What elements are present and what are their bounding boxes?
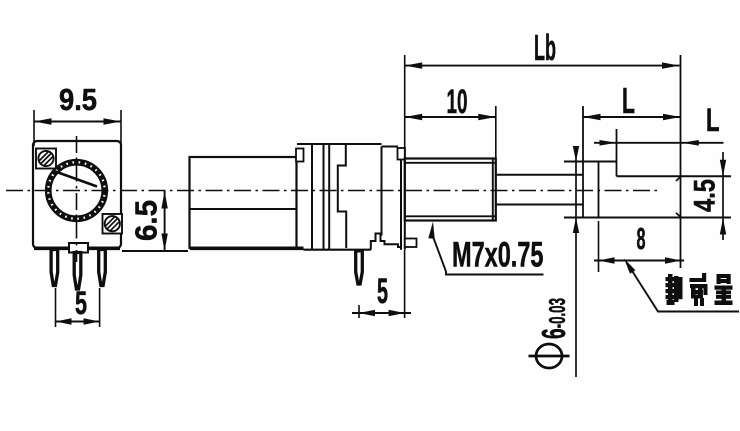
knurl note char 2 — [690, 273, 708, 306]
dim 5 extension right — [99, 288, 101, 327]
screw BR circle — [105, 216, 120, 231]
dim 9.5 extension right — [120, 110, 122, 146]
dim 6.5 bottom extension — [122, 250, 188, 252]
bottom tab — [69, 243, 88, 253]
dim 8 line — [594, 260, 684, 262]
svg-text:5: 5 — [75, 285, 87, 321]
side body seam line — [190, 208, 297, 210]
dim 5 arrow right — [84, 318, 100, 324]
dim 6.5 arrow bottom — [161, 234, 167, 252]
svg-text:6-0.03: 6-0.03 — [535, 298, 572, 339]
dim L2 arrow left — [600, 140, 617, 146]
dim phi6 arrow bottom — [573, 218, 579, 234]
bracket top edge right step — [382, 146, 399, 148]
svg-text:L: L — [622, 80, 635, 121]
side body outline — [190, 157, 297, 248]
svg-text:Lb: Lb — [534, 27, 556, 68]
screw TL hatch — [41, 154, 51, 164]
knurl note char 3 — [715, 274, 733, 305]
dim 10 extension right — [495, 106, 497, 158]
side body bottom edge (thick) — [190, 247, 304, 251]
mount plate top tab — [398, 148, 405, 160]
screw TL circle — [38, 151, 53, 166]
dim Lb arrow right — [662, 62, 680, 68]
dim 10 arrow right — [478, 114, 496, 120]
svg-text:6.5: 6.5 — [129, 200, 164, 241]
knurl note leader line — [628, 265, 739, 312]
dim L1 arrow left — [583, 114, 601, 120]
pin 1 (front view) — [51, 250, 58, 286]
pin 2 (front view) — [74, 253, 81, 290]
dim 10 line — [405, 116, 496, 118]
bracket front plate edge — [381, 147, 383, 236]
knurl boundary line — [598, 162, 600, 218]
dim 5s extension left — [358, 305, 360, 318]
shaft neck top — [496, 174, 583, 176]
dim Lb extension left — [404, 55, 406, 148]
bracket plate 2 — [323, 144, 325, 249]
bushing outline — [405, 159, 496, 221]
front view vertical centerline — [76, 136, 78, 262]
shaft slot line — [54, 171, 97, 187]
svg-text:5: 5 — [377, 272, 388, 311]
dim 5 arrow left — [56, 318, 72, 324]
pin 3 (front view) — [99, 250, 106, 286]
dim 5 extension left — [55, 288, 57, 327]
label M7x0.75 leader arrow — [428, 222, 434, 239]
dim 9.5 arrow right — [104, 118, 122, 124]
shaft end top edge — [564, 161, 617, 163]
svg-text:9.5: 9.5 — [59, 82, 97, 117]
shaft inner circle — [51, 165, 103, 217]
label M7x0.75 leader line — [434, 238, 544, 275]
dim 5 line — [56, 321, 100, 323]
screw BR hatch — [107, 219, 117, 229]
pot front view body — [33, 141, 121, 248]
dim 4.5 line — [722, 152, 724, 240]
svg-text:M7x0.75: M7x0.75 — [452, 236, 544, 275]
shaft end chamfer top — [676, 177, 681, 181]
dim 8 arrow left — [599, 257, 615, 263]
bracket plate 1 — [311, 144, 313, 249]
shaft end bottom edge — [564, 217, 731, 219]
shaft knurl ring — [48, 162, 104, 218]
dim 5s arrow left — [359, 310, 375, 316]
shaft knurled outer circle — [46, 160, 107, 221]
dim L2 line — [594, 142, 724, 144]
dim 10 arrow left — [405, 114, 423, 120]
shaft flat top line — [617, 175, 732, 177]
svg-text:10: 10 — [447, 83, 468, 121]
knurl note char 1 — [666, 274, 683, 305]
bracket foot profile — [371, 234, 401, 250]
dim 9.5 extension left — [33, 110, 35, 146]
dim Lb line — [405, 65, 680, 67]
dim 4.5 arrow bottom — [720, 218, 726, 235]
mount plate front line — [400, 147, 402, 250]
bracket bottom edge — [304, 249, 371, 251]
dim 6.5 arrow top — [161, 191, 167, 209]
dim 8 extension left — [598, 221, 600, 272]
mount plate back line — [404, 147, 406, 250]
dim 5s line — [352, 312, 411, 314]
svg-text:L: L — [706, 102, 720, 138]
bracket plate 3 — [328, 144, 330, 249]
mount plate bottom tab — [405, 239, 417, 248]
dim phi6 line — [575, 146, 577, 377]
bushing thread crest bottom — [405, 215, 496, 217]
dim L1 arrow right — [663, 114, 681, 120]
horizontal centerline — [6, 190, 659, 192]
shaft flat step edge — [616, 129, 618, 176]
bracket top-left tab — [296, 149, 304, 162]
dim 9.5 line — [34, 121, 121, 123]
svg-text:4.5: 4.5 — [689, 179, 722, 212]
rotor plate profile — [338, 144, 346, 248]
dim 8 arrow right — [665, 257, 681, 263]
dim 4.5 arrow top — [720, 160, 726, 177]
screw TL square — [36, 149, 56, 169]
dim 5s extension right — [404, 250, 406, 318]
shaft end face — [680, 55, 682, 268]
knurl note leader arrow — [624, 259, 635, 274]
shaft end shoulder — [582, 106, 584, 218]
pin (side view) — [356, 251, 363, 284]
pot body bottom edge (thick) — [34, 247, 120, 251]
shaft neck bottom — [496, 204, 583, 206]
shaft end chamfer bottom — [676, 213, 681, 217]
dim phi6 arrow top — [573, 146, 579, 162]
bushing thread end line — [492, 159, 494, 221]
dim Lb arrow left — [405, 62, 423, 68]
dim L2 arrow right — [682, 140, 699, 146]
dim L1 line — [583, 116, 681, 118]
dim text phi6 (rotated) — [536, 344, 562, 368]
dim 5s arrow right — [389, 310, 405, 316]
dim 6.5 line — [164, 191, 166, 251]
dim 9.5 arrow left — [34, 118, 52, 124]
bushing thread crest top — [405, 162, 496, 164]
screw BR square — [103, 214, 123, 234]
svg-text:8: 8 — [637, 221, 646, 256]
bracket top edge — [297, 143, 382, 145]
